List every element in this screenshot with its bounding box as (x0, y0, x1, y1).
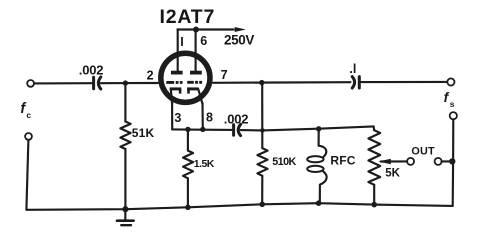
svg-text:.002: .002 (79, 62, 104, 77)
svg-text:I: I (180, 35, 183, 49)
svg-text:3: 3 (174, 111, 181, 125)
svg-text:8: 8 (206, 111, 213, 125)
svg-text:I2AT7: I2AT7 (160, 6, 216, 28)
svg-text:6: 6 (200, 34, 207, 48)
svg-text:c: c (26, 110, 31, 120)
svg-text:s: s (450, 99, 455, 109)
svg-text:510K: 510K (272, 156, 296, 168)
svg-text:RFC: RFC (330, 153, 355, 167)
svg-text:f: f (444, 89, 450, 105)
svg-text:5K: 5K (385, 168, 400, 180)
svg-text:.002: .002 (224, 111, 249, 126)
svg-text:51K: 51K (132, 126, 155, 140)
svg-text:OUT: OUT (411, 146, 435, 158)
svg-text:1.5K: 1.5K (194, 158, 215, 170)
svg-text:250V: 250V (224, 33, 254, 48)
svg-text:7: 7 (221, 68, 228, 82)
svg-text:.l: .l (349, 62, 356, 76)
svg-text:2: 2 (147, 68, 154, 82)
